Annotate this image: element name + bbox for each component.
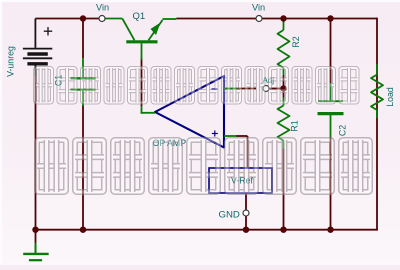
svg-text:C2: C2 [338, 125, 348, 136]
svg-text:Vin: Vin [252, 2, 265, 12]
svg-text:Vin: Vin [96, 2, 109, 12]
svg-text:Load: Load [385, 87, 395, 107]
svg-text:R1: R1 [290, 120, 300, 131]
svg-text:V-unreg: V-unreg [6, 46, 16, 77]
svg-text:GND: GND [219, 209, 240, 220]
svg-text:Q1: Q1 [133, 11, 146, 22]
svg-text:R2: R2 [291, 36, 301, 47]
